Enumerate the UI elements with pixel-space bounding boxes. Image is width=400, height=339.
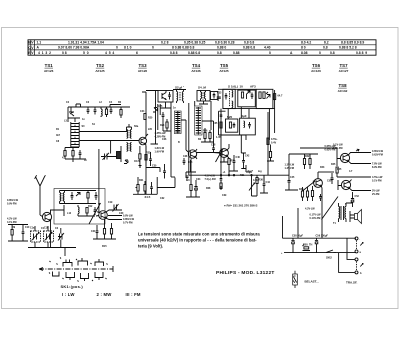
resistor R5 — [72, 151, 74, 157]
resistor R12 — [86, 208, 88, 214]
svg-text:4μ7: 4μ7 — [247, 170, 253, 174]
bold value 24.5 — [145, 195, 151, 199]
svg-text:C33: C33 — [217, 92, 222, 95]
wire TS4 emitter chain — [186, 159, 200, 198]
svg-text:0.8 0.8: 0.8 0.8 — [244, 41, 254, 45]
wire tuning caps bottom leads — [35, 240, 61, 248]
resistor R30 — [228, 159, 230, 165]
wire TS2 bottom components — [93, 220, 116, 240]
wire FM mid tie — [68, 147, 71, 149]
bottom cluster cap electrolytic — [194, 184, 197, 193]
vertical rail x155.5 — [156, 91, 161, 138]
svg-text:0: 0 — [116, 46, 118, 50]
wire TS2 base — [96, 206, 99, 216]
capacitor C28 — [183, 158, 186, 165]
tuning capacitor C1b — [44, 231, 54, 242]
wire left bottom cluster — [133, 177, 175, 194]
wire C52 — [352, 192, 354, 207]
svg-text:R24: R24 — [160, 124, 165, 127]
vertical rail x146 — [145, 92, 147, 194]
svg-text:SK1:(pos.): SK1:(pos.) — [61, 284, 84, 289]
wire TS2 collector right — [106, 210, 122, 212]
IF can bold designators — [175, 84, 256, 119]
svg-text:TS7: TS7 — [339, 63, 348, 68]
battery fuse holder — [293, 274, 298, 285]
svg-text:0.8: 0.8 — [330, 51, 335, 55]
tuning capacitor C1a — [31, 231, 41, 242]
svg-text:OA79: OA79 — [134, 160, 141, 163]
transistor TS5 — [220, 149, 229, 158]
box3 resistor b — [263, 92, 265, 99]
resistor R22 under TS3 — [145, 155, 147, 161]
svg-text:E: E — [28, 51, 30, 55]
svg-text:SK2: SK2 — [326, 256, 332, 260]
varactor symbol — [153, 108, 158, 113]
vertical rail x188.8 — [188, 103, 190, 150]
svg-text:L12: L12 — [67, 212, 72, 215]
svg-text:C32: C32 — [160, 197, 165, 200]
wire under TS3 — [146, 150, 151, 166]
left column cap chain — [220, 113, 223, 120]
svg-text:R30: R30 — [231, 160, 236, 163]
wire mid output — [337, 173, 371, 177]
svg-text:C19: C19 — [108, 201, 113, 204]
capacitor C36 — [186, 176, 189, 181]
wire discriminator verticals — [127, 124, 132, 130]
resistor R3 — [105, 109, 107, 115]
FM aerial coupling transistor symbol — [69, 107, 74, 116]
wire FM bus upper — [79, 130, 126, 132]
svg-text:5 0: 5 0 — [83, 51, 89, 55]
wire long left drop to mixer — [98, 149, 100, 206]
S-a inner resistor — [229, 122, 231, 128]
svg-text:C21: C21 — [91, 230, 96, 233]
component reference labels — [30, 85, 360, 233]
svg-text:C1b: C1b — [44, 227, 49, 230]
wire C45 to TS6 — [285, 187, 298, 190]
svg-text:R15: R15 — [102, 245, 107, 248]
table row E values — [38, 51, 367, 55]
FM discriminator coil T-FM upper pair — [127, 130, 132, 139]
svg-text:0: 0 — [269, 51, 271, 55]
wire tuning caps top leads — [35, 226, 61, 234]
wire x190 vertical — [186, 160, 196, 172]
IF transformer T1 coil left — [177, 90, 178, 104]
T2 core — [202, 93, 204, 101]
capacitor C10 — [22, 229, 25, 237]
terminal tick b — [360, 264, 363, 267]
capacitor C33 left of S5 — [217, 95, 221, 102]
wire R40 R41 — [303, 187, 308, 201]
table row line 1 — [28, 44, 376, 46]
svg-text:1.3: 1.3 — [186, 179, 190, 182]
wire R2 leads — [120, 107, 122, 118]
transistor TS8 — [341, 180, 350, 189]
S5 coil upper — [232, 91, 233, 98]
capacitor C47 — [319, 194, 322, 201]
resistor R41 — [306, 191, 308, 197]
S-b inner cap — [248, 122, 251, 129]
wire to C45 — [268, 174, 289, 176]
svg-text:0.14V-FM: 0.14V-FM — [310, 217, 321, 220]
resistor R20 — [144, 114, 146, 120]
resistor R27 — [209, 133, 211, 139]
svg-text:1.35: 1.35 — [216, 136, 221, 139]
svg-text:AC132: AC132 — [338, 89, 348, 93]
left bottom cluster cap — [150, 185, 153, 192]
capacitor C2 — [87, 107, 90, 114]
svg-text:0.8 0.30 0.28: 0.8 0.30 0.28 — [215, 41, 235, 45]
svg-text:TS5: TS5 — [220, 63, 229, 68]
capacitor C30 — [149, 156, 152, 164]
wire TS5 leads — [227, 144, 229, 158]
coil L2 — [101, 107, 102, 117]
table row labels — [28, 41, 34, 55]
svg-text:0.88: 0.88 — [233, 51, 240, 55]
switch contact bottom 4 — [95, 272, 103, 280]
capacitor C13 — [95, 192, 98, 200]
box2 transistor arrow — [247, 91, 251, 99]
svg-text:TRA.SF.: TRA.SF. — [346, 281, 358, 285]
driver components above TS6: resistor — [303, 159, 305, 165]
svg-text:R21: R21 — [139, 179, 144, 182]
wire TS2 out lines — [106, 216, 122, 220]
FM discriminator core dashes — [128, 130, 130, 139]
resistor R11 — [87, 193, 89, 199]
resistor R9 — [11, 230, 13, 236]
svg-text:AC126: AC126 — [311, 69, 321, 73]
wire amp feed — [300, 147, 337, 149]
svg-text:R40: R40 — [299, 188, 304, 191]
wire left components — [8, 225, 28, 242]
wire trimmer drop — [110, 141, 112, 154]
T2 coil right — [204, 91, 205, 102]
capacitor C40 — [233, 158, 236, 166]
svg-text:AF125: AF125 — [95, 69, 105, 73]
wire TS8 collector — [350, 180, 352, 182]
junction dot bus — [220, 175, 221, 176]
box3 resistor a — [259, 92, 261, 99]
transistor TS6 — [314, 179, 323, 188]
svg-text:R22: R22 — [146, 152, 151, 155]
output transformer primary — [339, 207, 340, 219]
svg-text:C58 50µF: C58 50µF — [292, 235, 304, 238]
voltage annotation labels left — [7, 157, 135, 249]
resistor R36 — [256, 178, 258, 184]
junction dots FM — [139, 166, 142, 168]
wire R3 leads — [106, 107, 108, 117]
table row line 2 — [28, 49, 376, 51]
svg-text:R31: R31 — [240, 174, 245, 177]
wire T1 top tie — [173, 88, 186, 90]
svg-text:0: 0 — [152, 46, 154, 50]
wire R7 leads — [139, 146, 141, 166]
driver resistor b — [309, 159, 311, 165]
coupling capacitor C45 — [288, 175, 291, 187]
table row B values — [37, 41, 365, 45]
resistor R58 — [304, 247, 309, 249]
svg-text:R43: R43 — [320, 166, 325, 169]
output transformer core — [341, 206, 344, 220]
wire TS6 collector up — [318, 171, 334, 173]
junction dots on AVC bus — [228, 175, 229, 176]
svg-text:0.35 0.38 0.25: 0.35 0.38 0.25 — [184, 41, 206, 45]
svg-text:BELAST...: BELAST... — [305, 280, 319, 284]
terminal circle 2 — [355, 250, 358, 253]
vertical rail x221 — [220, 109, 222, 148]
switch contact top 2 — [78, 258, 88, 266]
left bottom cluster resistor a — [137, 185, 139, 192]
switch axis end tick — [112, 266, 114, 272]
T1 core dashes — [179, 92, 181, 101]
resistor R16 — [110, 229, 112, 235]
FM discriminator lower core — [128, 143, 130, 152]
svg-text:4µ0: 4µ0 — [241, 114, 246, 118]
svg-text:8.8 8.85 8.9 8.9: 8.8 8.85 8.9 8.9 — [341, 41, 364, 45]
wire filter leads — [111, 146, 121, 162]
L10 core — [61, 193, 63, 201]
wire bus right hook — [267, 112, 269, 175]
wire rail drop — [64, 248, 66, 257]
svg-text:1.1: 1.1 — [37, 41, 42, 45]
svg-text:I : LW: I : LW — [62, 292, 75, 297]
diode OA79 — [124, 160, 128, 164]
wire TS8 base — [338, 180, 341, 190]
svg-text:4k7: 4k7 — [56, 134, 61, 137]
switch contact bottom 3 — [81, 273, 89, 281]
long diagonal wire to output — [322, 197, 339, 220]
svg-text:C24: C24 — [140, 110, 145, 113]
AM input filter box S1 — [54, 189, 105, 225]
table row C values — [37, 46, 357, 50]
wire can top ties — [142, 91, 158, 93]
wire R36 — [256, 175, 258, 187]
svg-text:8 1 0: 8 1 0 — [124, 46, 132, 50]
wire C42 leads — [241, 135, 246, 169]
svg-text:TS4: TS4 — [192, 63, 201, 68]
svg-text:9.07 8.60 7.98 0.98A: 9.07 8.60 7.98 0.98A — [58, 46, 90, 50]
wire down from amp to supply — [298, 201, 322, 238]
switch terminal dots — [49, 258, 108, 282]
svg-text:0.62V-FM: 0.62V-FM — [372, 154, 383, 157]
resistor R15 — [103, 229, 105, 235]
capacitor C44 — [263, 180, 266, 189]
wire AM bottom rail — [28, 247, 76, 249]
resistor R45 — [336, 167, 338, 173]
svg-text:8.9V-FM: 8.9V-FM — [372, 166, 381, 169]
wire branch to terminal 3 — [347, 238, 355, 259]
svg-text:R20: R20 — [148, 117, 153, 120]
svg-text:0: 0 — [319, 51, 321, 55]
component value labels — [12, 118, 353, 229]
wire FM osc drop — [110, 105, 121, 108]
svg-text:0.8 8: 0.8 8 — [170, 51, 178, 55]
FM band filter ladder L3 — [71, 122, 79, 147]
trimmer capacitor C7 — [103, 153, 110, 160]
svg-text:4 5 4: 4 5 4 — [105, 51, 114, 55]
svg-text:2V-FM: 2V-FM — [372, 193, 379, 196]
svg-text:AF125: AF125 — [219, 69, 229, 73]
vertical rail x171 — [170, 102, 172, 177]
AM band selector box 2 (vertical) — [195, 106, 202, 135]
wire feed drop x282 — [282, 216, 284, 238]
S5 coil lower — [232, 101, 233, 108]
svg-text:C39: C39 — [222, 194, 227, 197]
svg-text:III : FM: III : FM — [126, 292, 141, 297]
wire driver — [300, 154, 318, 169]
wire ladder top to rail — [68, 118, 80, 122]
transistor symbol in S2 — [162, 91, 166, 100]
ratio det box 2 — [238, 90, 256, 107]
wire R4 R5 leads — [65, 148, 79, 160]
svg-text:5.1V-FM: 5.1V-FM — [372, 180, 381, 183]
resistor R33 — [269, 152, 271, 158]
voltage annotation labels center — [155, 95, 283, 183]
svg-text:6: 6 — [136, 51, 138, 55]
resistor R7 — [139, 154, 141, 159]
wire TS6 surroundings — [313, 172, 323, 201]
svg-text:7.0(+)-FM: 7.0(+)-FM — [205, 178, 216, 181]
svg-text:AF126: AF126 — [138, 69, 148, 73]
resistor R24 — [166, 122, 168, 128]
wire FM rail small caps — [76, 104, 81, 107]
resistor R4 — [64, 151, 66, 157]
svg-text:AF136: AF136 — [191, 69, 201, 73]
coil L10 — [60, 191, 61, 204]
svg-text:4.2V-LW: 4.2V-LW — [305, 208, 315, 211]
wire IF strip tie y108.6 — [223, 108, 275, 110]
capacitor C21 — [96, 228, 99, 236]
wire can2 bottom drop — [199, 101, 208, 104]
svg-text:64.7: 64.7 — [278, 95, 283, 98]
terminal circle 3 — [355, 258, 358, 261]
capacitor C38 — [212, 145, 215, 153]
wire FM bottom tie — [65, 158, 86, 162]
voltage table outer box — [28, 40, 376, 55]
svg-text:C20: C20 — [119, 212, 124, 215]
box3 diode — [266, 92, 270, 99]
table label column line 2 — [33, 40, 35, 55]
svg-text:S4 ,M: S4 ,M — [198, 85, 206, 89]
left bottom cluster resistor b — [144, 185, 146, 192]
coil L11 — [63, 191, 64, 204]
svg-text:R45: R45 — [337, 168, 342, 171]
wire detector couple — [229, 155, 234, 175]
S5 inner cap — [225, 93, 228, 100]
band box inner marks — [175, 111, 180, 134]
svg-text:R58 TH: R58 TH — [303, 244, 313, 247]
transistor TS2 — [99, 211, 108, 220]
svg-text:1.91.31 4.94 2.75A 1.04: 1.91.31 4.94 2.75A 1.04 — [68, 41, 104, 45]
coil L12 — [78, 205, 79, 216]
wire TS8 emitter to terminal — [350, 188, 372, 190]
svg-text:R25: R25 — [188, 161, 193, 164]
electrolytic C52 — [351, 196, 354, 205]
arrow head TS7 top — [356, 149, 359, 151]
wire verticals under cans — [228, 107, 269, 140]
svg-text:TS3: TS3 — [138, 63, 147, 68]
svg-text:AF126: AF126 — [44, 69, 54, 73]
svg-text:24.5: 24.5 — [145, 195, 151, 199]
svg-text:4 1 3 2: 4 1 3 2 — [38, 51, 51, 55]
svg-text:0.8 8 9: 0.8 8 9 — [356, 51, 367, 55]
resistor R on x268 — [267, 138, 269, 145]
terminal tick a — [360, 243, 363, 246]
svg-text:R12: R12 — [88, 205, 93, 208]
svg-text:C52: C52 — [355, 195, 360, 198]
capacitor C on x221 bottom — [220, 148, 223, 190]
wire top tie cans — [218, 88, 256, 90]
capacitor C15 — [94, 207, 97, 215]
wire bus drop x264 — [263, 175, 265, 184]
svg-text:S 5,6),( 10: S 5,6),( 10 — [228, 84, 243, 88]
wire transformer leads — [339, 203, 353, 222]
IF can S5 big box — [223, 89, 235, 108]
svg-text:log: log — [258, 170, 262, 173]
table label column line 1 — [30, 40, 32, 55]
capacitor C42 — [242, 158, 245, 166]
wire branch under TS5 — [220, 157, 228, 162]
capacitor in small box — [213, 93, 216, 99]
wire TS5 base feed — [202, 121, 220, 153]
svg-text:● Rif= 231 261 270 286-S: ● Rif= 231 261 270 286-S — [224, 203, 258, 207]
wire detector out — [229, 168, 238, 171]
capacitor C12 — [71, 192, 74, 200]
svg-text:Le tensioni sono state misurat: Le tensioni sono state misurate con uno … — [138, 232, 260, 237]
small box right of S4 — [211, 92, 219, 100]
terminal dashes 1-2 — [356, 241, 358, 250]
wire volume leads — [251, 175, 253, 196]
wire C27 R24 — [163, 119, 171, 131]
svg-text:8.08: 8.08 — [301, 51, 308, 55]
wire FM bus lower — [79, 140, 139, 142]
loudspeaker — [355, 210, 362, 224]
voltage annotation labels right — [281, 144, 384, 276]
transistor TS3 — [139, 137, 147, 145]
svg-text:S2 4: S2 4 — [175, 85, 182, 89]
capacitor C31 — [163, 168, 166, 176]
wire TS7 collector to terminal — [349, 153, 372, 155]
svg-text:C10: C10 — [25, 226, 30, 229]
transistor arrow in box — [76, 193, 80, 197]
wire right rail x274.6 — [274, 90, 276, 133]
AGC style arrow into TS6 — [303, 181, 315, 191]
svg-text:R42: R42 — [305, 155, 310, 158]
wire TS3 leads — [139, 136, 146, 150]
svg-text:1.9V-FM: 1.9V-FM — [155, 151, 164, 154]
ladder core dashes — [74, 123, 76, 144]
switch SK1 axis line — [39, 268, 113, 270]
wire branch to terminal 4 — [339, 253, 355, 273]
svg-text:TS2: TS2 — [96, 63, 105, 68]
wire R26 R27 leads — [201, 128, 214, 142]
wire FM top rail — [68, 106, 130, 108]
transistor TS7 — [340, 153, 349, 162]
svg-text:S0a: S0a — [134, 125, 139, 128]
svg-text:AF3: AF3 — [250, 84, 256, 88]
wire trimmer leads — [101, 156, 111, 158]
switch contact top 3 — [95, 259, 104, 266]
svg-text:0 8: 0 8 — [62, 51, 67, 55]
AM band selector box (vertical) — [174, 111, 181, 134]
svg-text:0.2 8: 0.2 8 — [161, 41, 169, 45]
terminal circle 4 — [355, 271, 358, 274]
ratio det box 3 — [256, 89, 273, 108]
svg-text:R26: R26 — [203, 130, 208, 133]
wire IF strip tie y135 — [219, 111, 247, 135]
svg-text:220: 220 — [148, 128, 153, 131]
svg-text:universale (40 kΩ/V) in rappor: universale (40 kΩ/V) in rapporto al - - … — [138, 238, 257, 243]
